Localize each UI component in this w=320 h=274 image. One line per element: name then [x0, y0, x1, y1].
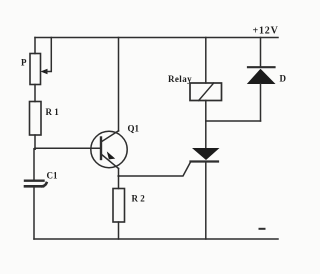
svg-text:Q1: Q1 — [128, 124, 140, 134]
wire relay-diode junction — [206, 120, 261, 122]
relay coil box — [190, 83, 222, 101]
transistor Q1 circle — [91, 131, 127, 167]
resistor R2 body — [113, 189, 125, 223]
svg-text:C1: C1 — [47, 171, 58, 181]
diode D triangle — [247, 69, 276, 84]
thyristor SCR triangle — [192, 148, 220, 160]
transistor Q1 base bar — [100, 138, 102, 160]
wire base node to Q1 base — [35, 147, 101, 149]
wire wiper to rail — [46, 38, 51, 72]
transistor Q1 emitter stroke — [101, 154, 119, 169]
thyristor SCR cathode bar — [191, 160, 219, 162]
wire bottom rail — [34, 238, 278, 240]
wire C1 bottom to ground rail — [33, 188, 35, 240]
potentiometer P wiper arrow — [41, 69, 48, 74]
capacitor C1 top plate — [25, 179, 44, 181]
diode D cathode bar — [248, 66, 275, 68]
capacitor C1 bottom plate — [25, 183, 47, 186]
svg-text:+12V: +12V — [253, 26, 279, 37]
resistor R1 body — [30, 102, 42, 136]
svg-text:D: D — [280, 74, 287, 84]
wire base node to C1 top — [33, 149, 35, 181]
wire SCR cathode to ground rail — [205, 162, 207, 240]
node emitter junction — [117, 175, 119, 177]
svg-text:R 1: R 1 — [46, 107, 60, 117]
wire R1 bottom to base node — [34, 135, 36, 149]
node base junction — [34, 148, 36, 150]
potentiometer P body — [30, 54, 41, 85]
wire relay bottom to SCR anode — [205, 101, 207, 149]
wire P bottom to R1 top — [34, 85, 36, 102]
ground tick mark — [260, 228, 265, 230]
relay coil diagonal — [199, 83, 214, 101]
transistor Q1 collector stroke — [101, 131, 119, 142]
wire rail to diode cathode — [260, 38, 262, 68]
wire emitter node to SCR gate — [119, 162, 191, 176]
svg-text:Relay: Relay — [168, 74, 192, 84]
wire diode anode to junction — [260, 84, 262, 121]
wire Q1 emitter to emitter node — [118, 169, 120, 189]
wire rail to relay top — [205, 38, 207, 84]
transistor Q1 emitter arrow — [107, 151, 115, 159]
wire rail to potentiometer top — [34, 38, 36, 54]
svg-text:R 2: R 2 — [132, 194, 146, 204]
wire rail to Q1 collector — [118, 38, 120, 132]
svg-text:P: P — [21, 58, 27, 68]
wire top +12V rail — [35, 37, 278, 39]
wire R2 bottom to ground rail — [118, 222, 120, 239]
